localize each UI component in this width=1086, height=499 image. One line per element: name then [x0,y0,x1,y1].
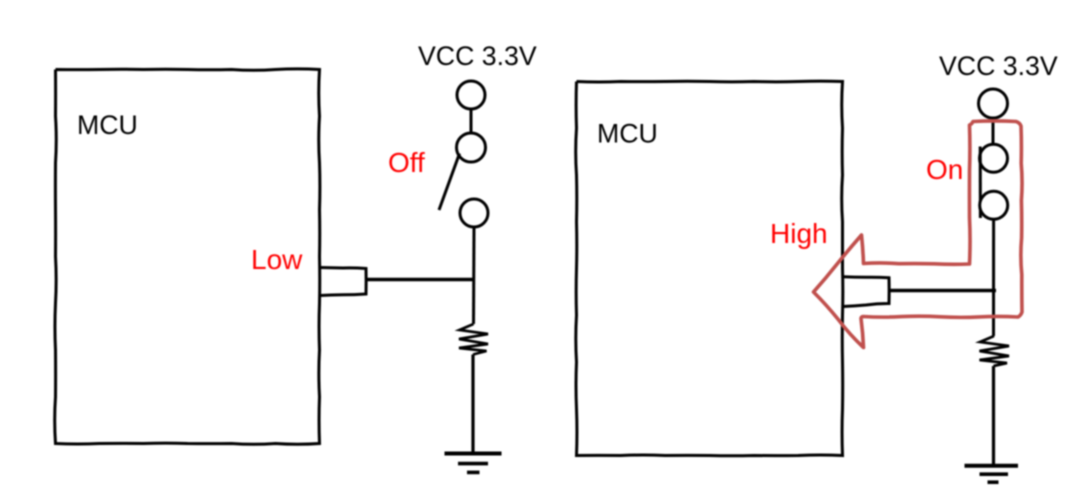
switch SW1 terminal circle bottom [460,199,488,227]
switch SW2 terminal circle bottom [980,191,1008,219]
wire VCC stub (right switch) [992,117,995,145]
svg-text:VCC 3.3V: VCC 3.3V [939,51,1058,81]
wire pin to node A (left) [366,278,474,281]
svg-text:High: High [770,218,828,249]
red annotation: closed-switch outline merged with High arrow [814,121,1023,348]
svg-text:MCU: MCU [77,110,138,140]
resistor R1 [459,324,488,355]
wire VCC stub (left switch) [470,109,473,134]
switch SW2 pole circle middle [980,144,1008,172]
pin box GPIO (left MCU) [320,268,366,296]
switch SW1 terminal circle top (VCC side) [457,81,485,109]
ground GND (right) [965,464,1019,468]
wire resistor to ground (left) [471,355,474,453]
pin box GPIO (right MCU) [843,277,889,307]
wire switch bottom to resistor (right), node B junction [992,219,995,336]
resistor R2 [980,336,1010,366]
ground GND (left) [445,452,502,456]
MCU U1 (left) [55,69,320,444]
svg-text:VCC 3.3V: VCC 3.3V [418,41,537,71]
wire pin to node B (right) [889,289,996,292]
svg-text:On: On [926,154,963,185]
switch SW1 lever (open) [439,154,460,211]
wire resistor to ground (right) [992,366,995,464]
switch SW2 lever (closed) [979,147,982,219]
wire switch bottom to resistor (left), node A junction [472,227,476,324]
svg-text:MCU: MCU [597,119,658,149]
switch SW1 pole circle middle [457,133,486,162]
MCU U2 (right) [576,81,843,456]
svg-text:Off: Off [388,147,425,178]
switch SW2 terminal circle top (VCC side) [979,89,1008,118]
svg-text:Low: Low [251,244,303,275]
